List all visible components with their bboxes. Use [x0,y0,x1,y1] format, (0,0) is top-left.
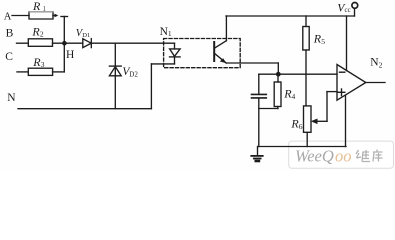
svg-text:2: 2 [40,29,44,38]
svg-text:N: N [7,92,16,104]
svg-text:H: H [66,49,74,61]
svg-text:B: B [6,27,14,39]
svg-text:C: C [5,51,13,63]
svg-text:WeeQ: WeeQ [295,147,334,166]
svg-text:1: 1 [168,29,172,38]
svg-text:cc: cc [345,6,351,14]
svg-text:D1: D1 [82,32,90,39]
svg-text:oo: oo [335,147,352,166]
svg-text:D2: D2 [129,71,138,79]
svg-text:6: 6 [299,122,303,131]
svg-text:3: 3 [41,60,45,69]
svg-text:5: 5 [321,37,325,46]
svg-text:A: A [4,11,12,22]
svg-text:4: 4 [292,92,296,101]
svg-text:1: 1 [43,5,47,13]
svg-text:R: R [32,0,41,13]
svg-text:2: 2 [379,61,383,70]
